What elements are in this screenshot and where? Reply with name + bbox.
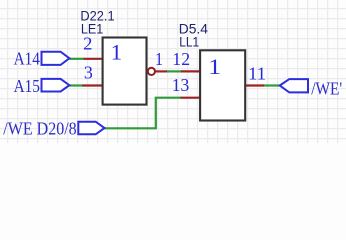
svg-text:/WE': /WE' [311,79,342,99]
svg-text:11: 11 [248,63,266,83]
svg-text:/WE D20/8: /WE D20/8 [3,118,76,138]
svg-text:2: 2 [83,34,92,54]
svg-text:LL1: LL1 [179,34,199,50]
svg-text:1: 1 [155,49,163,69]
svg-text:A14: A14 [14,49,40,69]
svg-text:1: 1 [208,54,221,79]
svg-text:A15: A15 [14,76,40,96]
svg-text:3: 3 [84,63,93,83]
svg-text:13: 13 [172,75,190,95]
svg-text:1: 1 [111,40,123,65]
svg-text:12: 12 [172,49,190,69]
